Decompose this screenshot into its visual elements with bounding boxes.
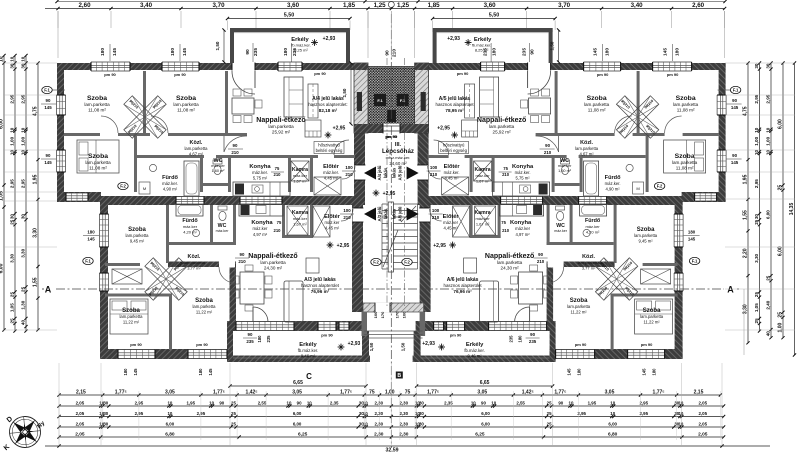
svg-text:2,95: 2,95 — [10, 94, 15, 103]
svg-text:9,45 m²: 9,45 m² — [130, 239, 145, 244]
svg-text:90: 90 — [297, 400, 302, 405]
door arc: Szoba1 door — [101, 116, 118, 133]
svg-text:2,95: 2,95 — [577, 411, 586, 416]
svg-text:11,08 m²: 11,08 m² — [676, 166, 694, 171]
entry arrow A/4 — [364, 167, 376, 180]
svg-text:10: 10 — [209, 400, 214, 405]
entry arrow A/6 — [407, 208, 419, 221]
door arc: Szoba2 door — [151, 116, 168, 133]
svg-text:14,35: 14,35 — [789, 203, 795, 216]
svg-text:210: 210 — [544, 150, 552, 155]
svg-text:1,05: 1,05 — [754, 303, 759, 312]
svg-text:pm 90: pm 90 — [641, 342, 653, 347]
svg-text:25: 25 — [547, 421, 552, 426]
svg-text:210: 210 — [231, 150, 239, 155]
wall: Furdo/WC wall — [200, 158, 203, 192]
svg-text:90: 90 — [558, 400, 563, 405]
axis: horizontal section line A-A — [56, 288, 724, 290]
svg-text:180: 180 — [518, 335, 523, 343]
svg-text:pm 90: pm 90 — [104, 72, 116, 77]
wall: WC right wall — [228, 158, 231, 192]
svg-text:3,77 m²: 3,77 m² — [582, 266, 596, 271]
svg-text:F.1: F.1 — [85, 259, 91, 264]
svg-text:1,60 m²: 1,60 m² — [212, 169, 226, 173]
svg-text:235: 235 — [266, 335, 271, 343]
svg-text:2,35: 2,35 — [444, 400, 453, 405]
svg-text:145: 145 — [112, 48, 118, 56]
svg-text:76,96 m²: 76,96 m² — [453, 289, 472, 294]
svg-text:6,00: 6,00 — [766, 210, 771, 219]
svg-text:3,77 m²: 3,77 m² — [187, 266, 201, 271]
svg-text:10: 10 — [754, 150, 759, 156]
F markers circles — [42, 86, 52, 93]
svg-text:2,60: 2,60 — [78, 2, 91, 9]
svg-text:1,50: 1,50 — [215, 41, 220, 50]
door: apartment entry lower (stair wall) — [353, 208, 364, 222]
svg-text:A: A — [45, 285, 52, 295]
svg-text:6,00: 6,00 — [293, 411, 302, 416]
svg-text:90: 90 — [46, 153, 51, 158]
svg-text:F.2: F.2 — [120, 184, 126, 189]
wall: inner v-wall between Szoba1 and Szoba2 — [143, 71, 146, 133]
wall: Szoba3 right wall — [134, 136, 137, 192]
svg-text:1,85: 1,85 — [343, 2, 356, 9]
svg-text:210: 210 — [345, 172, 353, 177]
svg-text:2,95: 2,95 — [21, 179, 26, 188]
svg-text:180: 180 — [170, 48, 176, 56]
furniture: eloter wardrobe lower — [313, 206, 330, 237]
svg-text:1,60 m²: 1,60 m² — [558, 169, 572, 173]
dimension: 6,65 balcony width bottom — [230, 385, 366, 387]
svg-text:82,18 m²: 82,18 m² — [319, 108, 338, 113]
svg-text:2,30: 2,30 — [399, 431, 409, 437]
svg-text:25: 25 — [547, 400, 552, 405]
svg-text:lam.parketta: lam.parketta — [192, 304, 216, 309]
svg-text:25: 25 — [754, 318, 759, 324]
svg-text:210: 210 — [274, 228, 282, 233]
door: balcony door opening in top wall — [232, 63, 255, 71]
svg-text:180: 180 — [123, 368, 128, 376]
wall: Konyha/Kamra wall — [288, 158, 291, 192]
svg-text:lam.parketta: lam.parketta — [567, 304, 591, 309]
svg-text:3,30: 3,30 — [754, 253, 759, 262]
svg-text:lakás: lakás — [392, 167, 397, 178]
svg-text:1,42⁵: 1,42⁵ — [522, 389, 535, 395]
svg-text:4,75: 4,75 — [33, 106, 39, 116]
svg-text:2,05: 2,05 — [699, 400, 708, 405]
svg-text:145: 145 — [688, 237, 696, 242]
svg-text:1,05: 1,05 — [0, 191, 5, 201]
svg-text:11,22 m²: 11,22 m² — [123, 320, 140, 325]
wall: inner v-wall between Szoba2 and Nappali — [225, 71, 228, 133]
svg-text:1,55: 1,55 — [743, 210, 749, 220]
svg-text:1,00: 1,00 — [778, 323, 784, 333]
svg-text:235: 235 — [509, 335, 514, 343]
svg-text:máz.ker.: máz.ker. — [515, 170, 531, 175]
svg-text:145: 145 — [567, 368, 572, 376]
svg-text:145: 145 — [208, 368, 213, 376]
svg-text:2,95: 2,95 — [754, 179, 759, 188]
svg-text:10: 10 — [21, 150, 26, 156]
svg-text:5,75 m²: 5,75 m² — [515, 176, 530, 181]
svg-text:máz.ker.: máz.ker. — [252, 170, 268, 175]
svg-text:6,25: 6,25 — [298, 431, 308, 437]
svg-text:30: 30 — [754, 214, 759, 220]
svg-text:10: 10 — [678, 421, 683, 426]
svg-text:210: 210 — [430, 172, 438, 177]
stairwell: diagonal break line — [383, 230, 398, 267]
svg-text:2,05: 2,05 — [76, 411, 85, 416]
svg-text:2,30: 2,30 — [375, 411, 384, 416]
wall: lower apt - Konyha/Kamra wall — [282, 205, 285, 238]
heat pump label upper-left — [314, 142, 344, 154]
svg-text:25: 25 — [547, 411, 552, 416]
center: porch side wall left (light hatched) — [354, 63, 368, 133]
entry arrow A/3 — [364, 208, 376, 221]
furniture: kamra shelf upper — [291, 161, 309, 181]
svg-text:10: 10 — [610, 400, 615, 405]
svg-text:+2,95: +2,95 — [433, 243, 446, 249]
svg-text:máz.ker: máz.ker — [585, 224, 600, 229]
svg-text:10: 10 — [766, 150, 771, 156]
svg-text:máz.ker: máz.ker — [443, 220, 458, 225]
svg-text:hasznos alapterület: hasznos alapterület — [444, 283, 483, 288]
svg-text:Szoba: Szoba — [87, 95, 107, 102]
svg-text:2,05: 2,05 — [76, 421, 85, 426]
svg-text:1,05: 1,05 — [10, 303, 15, 312]
svg-text:180: 180 — [283, 48, 289, 56]
svg-text:3,30: 3,30 — [743, 304, 749, 314]
center: F.1 column squares in porch — [374, 94, 386, 106]
svg-text:máz.ker: máz.ker — [293, 216, 308, 221]
svg-text:2,30: 2,30 — [400, 421, 409, 426]
svg-text:2,95: 2,95 — [754, 94, 759, 103]
svg-text:10: 10 — [569, 400, 574, 405]
svg-text:10: 10 — [363, 421, 368, 426]
svg-text:145: 145 — [133, 368, 138, 376]
wall: upper-left exterior left wall — [57, 63, 64, 201]
svg-text:4,45 m²: 4,45 m² — [444, 176, 459, 181]
svg-text:3,30: 3,30 — [21, 248, 26, 257]
svg-text:6,00: 6,00 — [481, 411, 490, 416]
svg-text:75: 75 — [503, 166, 508, 171]
dimension chains: bottom — [59, 394, 720, 396]
svg-text:2,95: 2,95 — [10, 179, 15, 188]
svg-text:11,08 m²: 11,08 m² — [677, 108, 695, 113]
svg-text:4,67 m²: 4,67 m² — [189, 152, 204, 157]
svg-text:30: 30 — [419, 400, 424, 405]
svg-text:4,20 m²: 4,20 m² — [183, 230, 197, 235]
dimension chain: top secondary line — [57, 1, 725, 3]
svg-text:6,65: 6,65 — [293, 380, 303, 386]
svg-text:máz.ker: máz.ker — [216, 229, 230, 233]
svg-text:180: 180 — [688, 230, 696, 235]
svg-text:30: 30 — [10, 214, 15, 220]
svg-text:beltéri egység: beltéri egység — [316, 148, 343, 153]
svg-text:3,30: 3,30 — [10, 253, 15, 262]
svg-text:lakás: lakás — [383, 167, 388, 178]
svg-text:3,05: 3,05 — [605, 389, 615, 395]
wall: inner h-wall under Kozl (bath corridor) — [137, 155, 355, 158]
svg-text:24,30 m²: 24,30 m² — [501, 266, 520, 271]
svg-text:lam.parketta: lam.parketta — [672, 160, 698, 165]
svg-text:30: 30 — [754, 63, 759, 69]
svg-text:10: 10 — [10, 56, 15, 62]
svg-text:2,30: 2,30 — [375, 400, 384, 405]
svg-text:1,25: 1,25 — [397, 2, 410, 9]
wall: inner h-wall under Szoba1/Szoba2 (corridor wall) — [64, 133, 247, 136]
svg-text:210: 210 — [502, 172, 510, 177]
svg-text:pm 90: pm 90 — [597, 72, 609, 77]
svg-text:25: 25 — [766, 275, 771, 281]
wall: lower wing bottom wall — [100, 349, 233, 359]
svg-text:75: 75 — [501, 220, 506, 225]
svg-text:1,00: 1,00 — [10, 136, 15, 145]
svg-text:1,95: 1,95 — [33, 174, 39, 184]
svg-text:4,90 m²: 4,90 m² — [605, 187, 620, 192]
svg-text:lam.parketta: lam.parketta — [184, 146, 208, 151]
window: living bottom wall 180/235 — [236, 322, 294, 331]
svg-text:hasznos alapterület: hasznos alapterület — [436, 102, 475, 107]
svg-text:210: 210 — [274, 172, 282, 177]
corridor: bottom exit steps — [364, 330, 423, 332]
svg-text:145: 145 — [663, 48, 669, 56]
svg-text:2,95: 2,95 — [766, 94, 771, 103]
wall: balcony right wall / corridor edge — [362, 331, 369, 356]
window: left wall lower 90/145 — [57, 150, 66, 172]
svg-text:lam.parketta: lam.parketta — [260, 260, 286, 265]
svg-text:30: 30 — [103, 421, 108, 426]
wall: stair shaft left wall lower — [352, 196, 363, 312]
svg-text:25: 25 — [10, 292, 15, 298]
mirrored right half — [413, 28, 727, 362]
svg-text:5,75 m²: 5,75 m² — [253, 176, 268, 181]
svg-text:10: 10 — [678, 411, 683, 416]
svg-text:30: 30 — [419, 421, 424, 426]
svg-text:1,67 m²: 1,67 m² — [293, 179, 307, 184]
svg-text:5,50: 5,50 — [284, 13, 295, 19]
window: living bottom sidelight — [339, 322, 349, 330]
furniture: cabinet upper nappali — [305, 120, 321, 137]
furniture: cabinet lower nappali — [306, 258, 319, 273]
svg-text:máz.ker: máz.ker — [554, 229, 568, 233]
svg-text:30: 30 — [21, 63, 26, 69]
svg-text:145: 145 — [593, 48, 599, 56]
svg-text:1,25: 1,25 — [374, 2, 387, 9]
svg-text:10: 10 — [10, 127, 15, 133]
svg-text:1,77⁵: 1,77⁵ — [115, 389, 128, 395]
svg-text:2,95: 2,95 — [135, 400, 144, 405]
svg-text:1,77⁵: 1,77⁵ — [213, 389, 226, 395]
svg-text:100: 100 — [345, 165, 353, 170]
svg-text:1,30: 1,30 — [21, 300, 26, 309]
svg-text:40: 40 — [766, 331, 771, 337]
wall: stair block left wall upper part — [354, 63, 365, 205]
svg-text:6,25: 6,25 — [475, 431, 485, 437]
svg-text:hőszivattyú: hőszivattyú — [443, 143, 465, 148]
svg-text:F.2: F.2 — [657, 184, 663, 189]
dimension: porch depth 1,50 — [350, 63, 352, 124]
svg-text:1,50: 1,50 — [369, 342, 374, 351]
svg-text:235: 235 — [246, 339, 254, 344]
svg-text:1,00: 1,00 — [766, 136, 771, 145]
svg-text:11,08 m²: 11,08 m² — [177, 108, 195, 113]
svg-text:máz.ker: máz.ker — [211, 164, 225, 168]
furniture: wardrobe X upper (rotated 45) — [124, 96, 166, 138]
svg-text:Szoba: Szoba — [176, 95, 196, 102]
svg-text:+2,93: +2,93 — [447, 36, 460, 42]
svg-text:máz.ker.: máz.ker. — [162, 181, 178, 186]
svg-text:máz.ker: máz.ker — [293, 173, 308, 178]
furniture: sofa upper nappali — [284, 77, 303, 117]
svg-text:11,22 m²: 11,22 m² — [196, 310, 213, 315]
svg-text:máz.ker: máz.ker — [253, 226, 268, 231]
svg-text:25: 25 — [231, 400, 236, 405]
extension lines: bottom — [58, 363, 60, 446]
svg-text:3,30: 3,30 — [33, 228, 39, 238]
svg-text:2,15: 2,15 — [76, 389, 86, 395]
extension lines: top — [57, 11, 59, 28]
svg-text:A: A — [727, 285, 734, 295]
svg-text:pm 90: pm 90 — [196, 342, 208, 347]
svg-text:2,15: 2,15 — [694, 389, 704, 395]
window: party wall bath window — [176, 197, 204, 205]
svg-text:1,95: 1,95 — [588, 400, 597, 405]
stairwell: center rail — [388, 202, 393, 272]
svg-text:hasznos alapterület: hasznos alapterület — [301, 283, 340, 288]
svg-text:11,08 m²: 11,08 m² — [88, 108, 106, 113]
svg-text:25,92 m²: 25,92 m² — [493, 130, 512, 135]
svg-text:Nappali-étkező: Nappali-étkező — [248, 253, 297, 260]
svg-text:10: 10 — [167, 400, 172, 405]
furniture: dining table lower with chairs — [240, 272, 264, 304]
svg-text:+2,95: +2,95 — [383, 191, 396, 197]
svg-text:170: 170 — [380, 311, 385, 318]
svg-text:90: 90 — [545, 143, 550, 148]
wall: lower apt - Furdo/WC wall — [210, 205, 213, 245]
svg-text:máz.ker.: máz.ker. — [323, 170, 339, 175]
svg-text:90: 90 — [481, 400, 486, 405]
svg-text:2,05: 2,05 — [699, 411, 708, 416]
svg-text:lakás: lakás — [392, 208, 397, 219]
svg-text:2,05: 2,05 — [698, 431, 708, 437]
svg-text:1,00: 1,00 — [754, 136, 759, 145]
svg-text:Nappali-étkező: Nappali-étkező — [256, 117, 305, 124]
wall: lower apt - dark h-wall below Kozl — [168, 262, 236, 268]
svg-text:mfsz.máz.ker.: mfsz.máz.ker. — [386, 155, 411, 160]
svg-text:10: 10 — [167, 411, 172, 416]
svg-text:4,75: 4,75 — [743, 106, 749, 116]
svg-text:2,55: 2,55 — [258, 400, 267, 405]
balcony: top-left balcony walls — [230, 28, 350, 32]
furniture: WC toilet upper — [213, 160, 222, 164]
svg-text:180: 180 — [100, 48, 106, 56]
svg-text:2,95: 2,95 — [135, 411, 144, 416]
svg-text:A/3 jelű: A/3 jelű — [377, 206, 382, 221]
svg-text:180: 180 — [87, 230, 95, 235]
svg-text:1,50: 1,50 — [342, 88, 347, 97]
svg-text:+2,93: +2,93 — [348, 341, 361, 347]
svg-text:A/4 jelű: A/4 jelű — [377, 165, 382, 180]
svg-text:145: 145 — [731, 105, 739, 110]
svg-text:180: 180 — [257, 335, 262, 343]
svg-text:30: 30 — [103, 400, 108, 405]
svg-text:1,42⁵: 1,42⁵ — [246, 389, 259, 395]
dimension chain: bottom total 32,59 — [45, 445, 770, 447]
svg-text:6,80: 6,80 — [165, 431, 175, 437]
svg-text:180: 180 — [198, 368, 203, 376]
svg-text:3,40: 3,40 — [140, 2, 153, 9]
svg-text:90: 90 — [538, 252, 543, 257]
svg-text:F.1: F.1 — [44, 88, 50, 93]
svg-text:90: 90 — [385, 50, 391, 56]
svg-text:pm 90: pm 90 — [450, 333, 462, 338]
furniture: kamra shelf lower — [287, 206, 308, 235]
wall: lower apt - Kamra bottom wall — [282, 235, 313, 238]
window: bottom wall window 1 (180/145) — [118, 350, 155, 359]
svg-text:F.1: F.1 — [400, 98, 406, 103]
svg-text:2,05: 2,05 — [76, 400, 85, 405]
svg-text:10: 10 — [363, 400, 368, 405]
svg-text:6,00: 6,00 — [778, 119, 784, 129]
door: middle szoba door gap and arc — [219, 261, 235, 268]
svg-text:lam.parketta: lam.parketta — [634, 233, 658, 238]
svg-text:170: 170 — [395, 311, 400, 318]
svg-text:lam.parketta: lam.parketta — [640, 314, 664, 319]
svg-text:25: 25 — [231, 421, 236, 426]
svg-text:210: 210 — [392, 49, 398, 57]
furniture: bathtub upper apartment — [184, 161, 199, 196]
svg-text:100: 100 — [432, 208, 440, 213]
furniture: alcove wardrobe with X — [112, 269, 142, 284]
svg-text:2,60: 2,60 — [692, 2, 705, 9]
svg-text:235: 235 — [529, 339, 537, 344]
svg-text:lam.parketta: lam.parketta — [85, 160, 111, 165]
svg-text:25: 25 — [754, 219, 759, 225]
svg-text:1,85: 1,85 — [428, 2, 441, 9]
left half geometry group — [57, 28, 371, 362]
svg-text:máz.ker: máz.ker — [325, 220, 340, 225]
svg-text:lam.parketta: lam.parketta — [673, 102, 699, 107]
door arc: Kozl to Nappali — [223, 136, 225, 152]
door arc: Eloter-Nappali door — [334, 140, 349, 155]
svg-text:25: 25 — [231, 411, 236, 416]
svg-text:100: 100 — [430, 165, 438, 170]
svg-text:1,77⁵: 1,77⁵ — [427, 389, 440, 395]
svg-text:30: 30 — [10, 63, 15, 69]
furniture: shelf upper nappali — [308, 84, 318, 118]
window: party wall kitchen window — [240, 197, 282, 205]
svg-text:25: 25 — [778, 312, 784, 318]
wall: step wall bottom of upper-left wing — [57, 192, 101, 202]
svg-text:2,95: 2,95 — [640, 400, 649, 405]
svg-text:1,77⁵: 1,77⁵ — [554, 389, 567, 395]
svg-text:3,05: 3,05 — [292, 389, 302, 395]
svg-text:6,00: 6,00 — [0, 263, 5, 273]
svg-text:A/6 jelű: A/6 jelű — [398, 206, 403, 221]
svg-text:100: 100 — [402, 311, 407, 318]
svg-text:180: 180 — [492, 48, 498, 56]
svg-text:235: 235 — [522, 48, 528, 56]
svg-text:Nappali-étkező: Nappali-étkező — [477, 117, 526, 124]
svg-text:2,20: 2,20 — [743, 248, 749, 258]
svg-text:9,46 m²: 9,46 m² — [301, 354, 316, 359]
svg-text:4,97 m²: 4,97 m² — [253, 232, 268, 237]
svg-text:9,46 m²: 9,46 m² — [467, 354, 482, 359]
svg-text:75: 75 — [277, 220, 282, 225]
furniture: washbasin lower — [192, 229, 199, 236]
window: step wall 90/145 — [66, 193, 88, 201]
